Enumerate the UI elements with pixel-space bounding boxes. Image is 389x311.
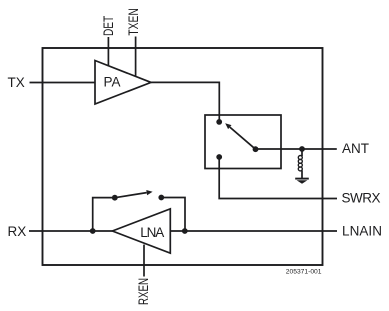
svg-text:RX: RX xyxy=(8,224,27,239)
wire RX input xyxy=(29,230,112,232)
ground bar xyxy=(295,178,309,180)
arrowhead switch arm S1 xyxy=(225,123,231,129)
wire bypass switch arm xyxy=(115,193,147,198)
module boundary box xyxy=(43,48,323,265)
wire switch arm xyxy=(230,127,256,149)
switch S1 box xyxy=(205,115,281,169)
svg-text:RXEN: RXEN xyxy=(136,278,151,305)
node bypass contact right xyxy=(158,195,164,201)
svg-text:TX: TX xyxy=(8,75,25,90)
svg-text:SWRX: SWRX xyxy=(342,190,381,205)
wire TX input xyxy=(30,82,96,84)
node switch pole right xyxy=(253,146,259,152)
svg-text:205371-001: 205371-001 xyxy=(286,268,322,275)
wire DET xyxy=(107,37,109,66)
wire ANT net xyxy=(256,148,337,150)
wire PA output to switch xyxy=(151,82,219,122)
ground triangle xyxy=(297,180,308,184)
svg-text:DET: DET xyxy=(100,15,116,36)
wire LNAIN net xyxy=(170,230,337,232)
svg-text:LNAIN: LNAIN xyxy=(342,224,382,239)
node ANT junction xyxy=(299,146,305,152)
op-amp PA U1 triangle xyxy=(95,61,151,105)
wire bypass right vertical xyxy=(161,198,185,232)
wire bypass left vertical xyxy=(93,198,115,231)
op-amp LNA U2 triangle xyxy=(112,209,170,253)
svg-text:LNA: LNA xyxy=(140,225,164,240)
node bypass contact left xyxy=(112,195,118,201)
svg-text:TXEN: TXEN xyxy=(126,8,142,35)
node RX junction xyxy=(90,228,96,234)
arrowhead bypass switch arm xyxy=(146,190,152,195)
wire RXEN xyxy=(143,245,145,277)
svg-text:PA: PA xyxy=(103,75,120,90)
inductor L1 xyxy=(301,149,303,178)
node LNAIN junction xyxy=(182,228,188,234)
svg-text:ANT: ANT xyxy=(342,141,369,156)
wire TXEN xyxy=(135,37,137,77)
wire SWRX net xyxy=(219,157,337,199)
node switch contact top-left xyxy=(216,119,222,125)
node switch contact bottom-left xyxy=(216,154,222,160)
